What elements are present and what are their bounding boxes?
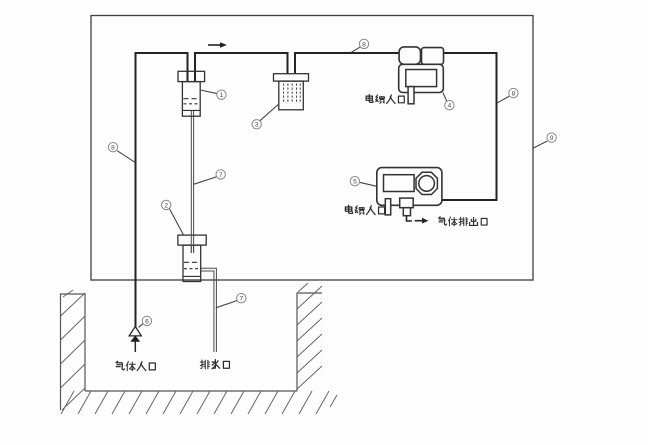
device 5 right port: [400, 198, 414, 208]
tube 7 drain elbow from bottle 2: [201, 268, 217, 352]
bottle 1 cap: [178, 71, 205, 81]
pipe top horizontal segment 1: [135, 52, 189, 54]
text cable entry 4: [366, 94, 404, 103]
pipe into device 5: [441, 199, 497, 201]
gas outlet elbow: [407, 216, 413, 221]
svg-text:4: 4: [448, 103, 452, 110]
device 4 top right box: [422, 48, 444, 65]
bottle 3 cap: [274, 74, 309, 81]
flow arrow: [208, 42, 227, 48]
text gas outlet: [439, 217, 487, 226]
device 4 top left knob: [399, 47, 420, 64]
svg-text:1: 1: [220, 92, 224, 99]
enclosure box 9: [91, 16, 533, 281]
svg-text:7: 7: [219, 172, 223, 179]
pipe out of bottle 1: [194, 52, 196, 81]
bottle 2 body: [183, 245, 201, 281]
label 2: [162, 200, 184, 235]
pipe into bottle 3: [287, 52, 289, 74]
text gas inlet: [116, 361, 155, 371]
device 5 nozzle: [403, 208, 410, 216]
svg-text:5: 5: [353, 179, 357, 186]
device 5 octagon: [416, 172, 437, 194]
left wall hatch: [61, 290, 86, 410]
device 4 cable gland: [408, 87, 414, 104]
label 5: [350, 177, 377, 187]
tube 7 from bottle 1 to bottle 2: [191, 111, 193, 253]
svg-text:8: 8: [111, 145, 115, 152]
inlet valve 6 arrow head: [131, 336, 139, 341]
label 4: [443, 93, 454, 110]
text cable entry 5: [345, 205, 384, 214]
label 1: [200, 90, 226, 99]
device 5 body: [377, 168, 442, 206]
bottle 3 packing: [284, 84, 301, 103]
pipe 8 left vertical: [135, 53, 137, 327]
pit floor line: [85, 390, 297, 392]
device 5 lens circle: [419, 176, 435, 192]
ground right wall outline: [297, 293, 322, 391]
pipe top horizontal segment 2: [195, 52, 288, 54]
label 8 top: [351, 39, 369, 52]
pipe out of bottle 3: [294, 52, 296, 74]
pipe 8 right vertical: [496, 52, 498, 201]
svg-text:3: 3: [255, 122, 259, 129]
svg-text:9: 9: [550, 135, 554, 142]
label 3: [252, 104, 279, 129]
pipe into bottle 1: [187, 52, 189, 81]
device 5 left gland: [385, 199, 390, 215]
right wall hatch: [297, 283, 322, 389]
svg-text:2: 2: [164, 202, 168, 209]
device 4 display: [406, 70, 437, 87]
bottle 2 liquid lines: [184, 262, 201, 276]
label 8 left: [108, 143, 135, 163]
svg-text:8: 8: [512, 91, 516, 98]
bottle 1 pipes through cap: [188, 71, 196, 81]
tube into bottle 2: [191, 235, 193, 253]
bottle 2 cap: [178, 235, 206, 245]
device 4 body: [399, 64, 444, 92]
label 8 right: [497, 88, 518, 102]
label 6: [139, 316, 152, 327]
bottle 1 liquid lines: [183, 99, 200, 111]
text drain: [200, 360, 229, 369]
ground left wall outline: [61, 294, 86, 410]
label 7 upper: [194, 170, 226, 185]
pipe segment from device 4 to right: [443, 52, 497, 54]
label 9: [533, 133, 556, 148]
bottom ground strip hatch: [61, 391, 337, 414]
svg-text:8: 8: [362, 41, 366, 48]
svg-text:7: 7: [239, 296, 243, 303]
label 7 lower: [216, 294, 246, 308]
device 5 display: [384, 175, 415, 192]
svg-text:6: 6: [145, 318, 149, 325]
bottle 3 body: [279, 81, 304, 110]
pipe top horizontal segment 3: [295, 52, 400, 54]
bottle 1 body: [182, 82, 200, 117]
gas outlet arrow: [415, 218, 429, 224]
inlet valve 6 triangle: [129, 327, 141, 336]
inlet valve 6 stem: [134, 341, 136, 352]
